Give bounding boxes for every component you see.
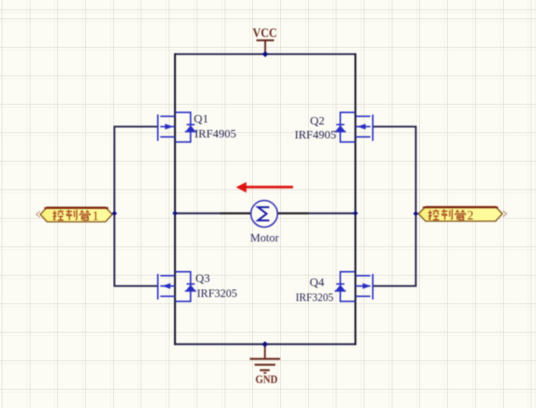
annotation: red current direction arrow	[236, 182, 293, 193]
ground symbol GND	[250, 344, 280, 386]
motor pin left (black)	[220, 212, 250, 214]
svg-text:Q1: Q1	[194, 112, 209, 126]
junction node: port2 / right gate net	[413, 211, 418, 216]
junction node: port1 / left gate net	[112, 211, 117, 216]
junction node: left rail / motor net	[172, 211, 177, 216]
wire: top rail VCC net	[175, 53, 355, 55]
transistor Q1 (IRF4905 P-MOSFET, top-left)	[158, 112, 196, 142]
wire: right vertical rail (Q2 drain to Q4 drain)	[354, 53, 356, 345]
svg-text:Q3: Q3	[195, 271, 210, 285]
wire: motor horizontal net	[175, 212, 355, 214]
svg-text:Q4: Q4	[310, 275, 325, 289]
svg-text:GND: GND	[255, 372, 277, 386]
wire: right gate net (port2 to Q2/Q4 gates)	[373, 127, 416, 286]
svg-text:Motor: Motor	[250, 231, 279, 245]
svg-text:Q2: Q2	[310, 113, 325, 127]
port 控制管1 (left control port)	[36, 207, 112, 223]
motor pin right (black)	[278, 212, 309, 214]
wire: bottom rail GND net	[175, 343, 355, 345]
wire: left vertical rail (Q1 drain to Q3 drain)	[174, 53, 176, 345]
transistor Q2 (IRF4905 P-MOSFET, top-right, mirrored)	[335, 112, 373, 142]
junction node: right rail / motor net	[353, 211, 358, 216]
svg-text:IRF3205: IRF3205	[197, 286, 237, 300]
port 控制管2 (right control port)	[418, 207, 506, 223]
wire: left gate net (port1 to Q1/Q3 gates)	[114, 127, 157, 286]
junction node: VCC / top rail	[262, 51, 268, 57]
transistor Q4 (IRF3205 N-MOSFET, bottom-right, mirrored)	[335, 272, 373, 302]
svg-text:IRF4905: IRF4905	[195, 127, 237, 141]
junction node: GND / bottom rail	[262, 341, 268, 347]
svg-text:1: 1	[92, 209, 98, 223]
svg-text:IRF3205: IRF3205	[296, 290, 334, 304]
svg-text:VCC: VCC	[253, 26, 278, 40]
motor M (circle with rotated M)	[251, 201, 278, 228]
power port VCC	[253, 26, 278, 54]
transistor Q3 (IRF3205 N-MOSFET, bottom-left)	[158, 272, 196, 302]
svg-text:2: 2	[467, 209, 473, 223]
svg-text:IRF4905: IRF4905	[295, 127, 337, 141]
